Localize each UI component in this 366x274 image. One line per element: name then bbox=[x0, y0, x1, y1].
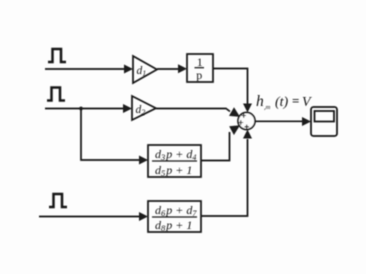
svg-text:1: 1 bbox=[197, 55, 203, 69]
svg-text:(t): (t) bbox=[275, 95, 289, 110]
svg-text:=: = bbox=[292, 93, 299, 108]
svg-text:,m: ,m bbox=[264, 104, 271, 111]
svg-text:p: p bbox=[196, 68, 202, 82]
svg-text:V: V bbox=[302, 95, 312, 110]
svg-text:h: h bbox=[256, 93, 264, 110]
